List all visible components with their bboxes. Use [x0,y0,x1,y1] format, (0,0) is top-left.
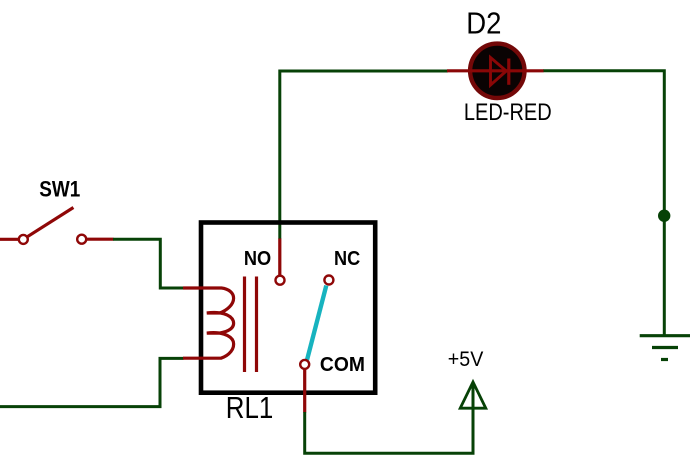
svg-text:COM: COM [320,354,365,376]
LED D2 [447,44,544,98]
svg-text:NC: NC [334,248,360,270]
svg-text:+5V: +5V [448,348,484,371]
switch SW1 [0,208,114,244]
svg-text:RL1: RL1 [226,391,273,425]
relay coil [183,288,234,358]
pin COM [300,360,309,369]
wire [543,71,664,335]
relay RL1 box [201,223,375,393]
node junction [658,210,670,222]
svg-text:SW1: SW1 [39,177,80,202]
svg-text:NO: NO [244,248,271,270]
power +5V [460,382,486,408]
svg-text:LED-RED: LED-RED [464,99,552,126]
wire [113,239,184,288]
relay armature [307,286,326,361]
wire [0,358,184,406]
relay core [243,277,246,373]
ground [640,336,690,360]
wire [280,71,448,239]
svg-text:D2: D2 [466,5,501,40]
pin NO [278,239,281,276]
wire [305,382,473,453]
pin NC [324,276,333,285]
pin COM wire [303,369,306,412]
